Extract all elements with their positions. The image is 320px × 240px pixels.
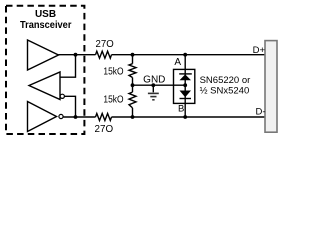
svg-text:A: A: [174, 57, 181, 68]
svg-text:27O: 27O: [96, 38, 114, 50]
svg-text:Transceiver: Transceiver: [20, 20, 72, 31]
svg-text:B: B: [178, 103, 184, 114]
svg-text:15kO: 15kO: [103, 94, 123, 106]
svg-text:USB: USB: [35, 9, 56, 20]
svg-text:½ SNx5240: ½ SNx5240: [200, 86, 250, 97]
svg-text:GND: GND: [143, 75, 165, 86]
svg-text:27O: 27O: [95, 123, 114, 135]
svg-text:15kO: 15kO: [103, 66, 123, 78]
svg-text:D-: D-: [255, 106, 265, 117]
svg-text:D+: D+: [253, 45, 266, 56]
svg-text:SN65220 or: SN65220 or: [200, 75, 251, 86]
